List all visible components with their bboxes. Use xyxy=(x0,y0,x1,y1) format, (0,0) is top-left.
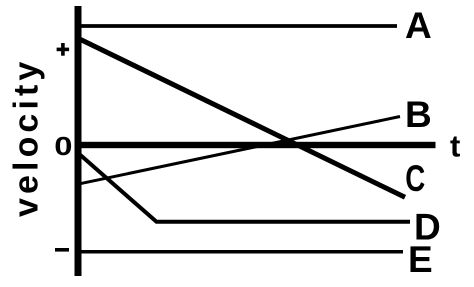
svg-text:B: B xyxy=(405,94,432,135)
svg-text:velocity: velocity xyxy=(8,58,46,217)
svg-text:C: C xyxy=(405,158,425,199)
wire line B (rising through zero) xyxy=(80,117,400,184)
minus sign (negative region marker) xyxy=(55,248,69,252)
plus sign (positive region marker) xyxy=(57,48,70,52)
wire line A (constant positive velocity) xyxy=(80,24,397,28)
svg-text:A: A xyxy=(405,5,432,46)
t-axis (zero line) xyxy=(75,142,436,148)
y-axis (velocity axis) xyxy=(75,6,82,276)
wire line D (drop then constant negative) xyxy=(80,154,411,222)
svg-text:t: t xyxy=(450,129,460,164)
wire line C (decreasing through zero) xyxy=(79,39,405,198)
svg-text:E: E xyxy=(408,239,433,280)
svg-text:0: 0 xyxy=(54,131,72,161)
wire line E (constant negative velocity) xyxy=(80,250,403,254)
